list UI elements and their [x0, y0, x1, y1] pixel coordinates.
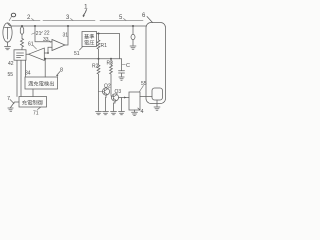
- ground under driver: [132, 112, 138, 115]
- wire box34 to box71: [32, 89, 34, 97]
- resistor R2: [97, 59, 100, 111]
- svg-text:55: 55: [141, 81, 147, 87]
- reference voltage box 51: [82, 32, 97, 47]
- wire op-amp 33 lower input: [44, 47, 52, 53]
- wire oval top to bus: [8, 23, 12, 26]
- bracket line section 2: [12, 20, 40, 22]
- driver block 4: [129, 92, 140, 110]
- wire block61 right down to box34: [25, 60, 27, 77]
- svg-text:Q2: Q2: [104, 84, 111, 90]
- transistor Q3: [111, 94, 118, 101]
- label 7 leader: [10, 100, 14, 104]
- node: junction at transistor 21: [21, 25, 23, 27]
- svg-text:8: 8: [60, 68, 63, 74]
- svg-text:22: 22: [44, 31, 50, 37]
- svg-text:R2: R2: [92, 64, 99, 70]
- wire oval bottom: [7, 42, 9, 46]
- svg-text:4: 4: [141, 109, 144, 115]
- svg-text:1: 1: [84, 4, 88, 11]
- control box 71: [19, 97, 47, 108]
- svg-text:31: 31: [63, 33, 69, 39]
- label 21 leader: [32, 33, 36, 34]
- svg-text:Q3: Q3: [115, 89, 122, 95]
- wire op-amp 33 output up to bus: [65, 26, 68, 45]
- wire from node down to op-amp 33 input: [35, 26, 52, 42]
- wire Q3 collector to driver: [119, 98, 129, 100]
- node R3 top: [110, 58, 112, 60]
- label 61 leader: [33, 46, 37, 50]
- svg-text:51: 51: [74, 51, 80, 57]
- transistor Q2: [102, 88, 109, 95]
- label 5 tick: [124, 19, 127, 21]
- resistor 22: [21, 39, 24, 50]
- svg-text:基準: 基準: [84, 33, 94, 41]
- wire Q3 emitter to ground: [114, 101, 116, 111]
- label 6 leader: [147, 17, 153, 23]
- wire electrode to ground: [156, 100, 158, 107]
- wire: node line from comparator to right: [44, 58, 121, 60]
- svg-text:61: 61: [28, 42, 34, 48]
- svg-text:満充電検出: 満充電検出: [28, 80, 55, 88]
- label 4 leader: [138, 108, 140, 110]
- node: junction feeding comparator input: [34, 25, 36, 27]
- label 2 tick: [32, 19, 35, 21]
- solar cell PV1 ellipse: [3, 23, 12, 42]
- op-amp 33: [52, 40, 65, 51]
- wire box71 left to ground: [11, 102, 20, 108]
- ground bottom-left: [8, 108, 13, 111]
- label C leader: [122, 64, 125, 66]
- svg-text:R1: R1: [101, 43, 108, 49]
- svg-text:電圧: 電圧: [84, 40, 94, 47]
- node R1/R2: [98, 58, 100, 60]
- block 61 inner marks: [17, 53, 24, 58]
- solar cell internal plates: [5, 27, 11, 29]
- label 3 tick: [71, 19, 74, 21]
- label 55 leader (driver): [140, 86, 144, 92]
- svg-text:21: 21: [36, 31, 42, 37]
- wire 55 from block61 down: [20, 60, 22, 96]
- ground under Q2: [103, 112, 109, 115]
- ground under C: [119, 77, 124, 80]
- wire ref box output: [97, 34, 120, 59]
- bracket line section 5: [100, 20, 143, 22]
- zener 62 from bus: [132, 25, 134, 27]
- resistor R1: [97, 34, 100, 59]
- op-amp 32 (points left): [29, 48, 45, 61]
- ground under tube: [154, 107, 160, 110]
- bracket line section 3: [43, 20, 95, 22]
- node: output junction on bus: [67, 25, 69, 27]
- ground under solar cell: [5, 47, 11, 50]
- node at x48: [47, 52, 49, 54]
- capacitor C: [119, 59, 125, 77]
- fluorescent tube 6: [146, 23, 166, 104]
- node R1 top: [98, 33, 100, 35]
- ground fourth: [119, 112, 125, 115]
- label 33 leader: [49, 41, 51, 43]
- wire 42 from block61 down: [16, 60, 18, 96]
- svg-text:55: 55: [8, 72, 14, 78]
- wire op-amp 32 output to block 61: [26, 53, 29, 55]
- resistor R3: [110, 59, 113, 94]
- svg-text:34: 34: [25, 71, 31, 77]
- wire under driver: [134, 110, 136, 112]
- wire fourth ground: [121, 99, 123, 111]
- node dot left: [44, 58, 46, 60]
- wire: main top supply: [11, 25, 146, 27]
- svg-text:充電制御: 充電制御: [22, 98, 43, 106]
- transistor 21 fork symbol: [20, 26, 23, 39]
- ground under zener: [130, 46, 136, 49]
- ground under Q3: [111, 112, 117, 115]
- lamp inner electrode box: [152, 88, 163, 100]
- svg-text:33: 33: [43, 37, 49, 43]
- svg-text:R3: R3: [107, 61, 114, 67]
- wire driver to lamp: [140, 96, 152, 98]
- label 71 leader: [38, 107, 41, 109]
- label balloon at solar cell: [11, 13, 15, 17]
- svg-text:42: 42: [8, 61, 14, 67]
- label 22 leader: [41, 32, 43, 34]
- wire Q2 emitter to ground: [105, 95, 108, 111]
- svg-text:71: 71: [33, 111, 39, 117]
- ground under R2: [96, 112, 102, 115]
- label 51 leader: [80, 47, 83, 50]
- full charge detection box 34: [25, 77, 58, 89]
- wire down to detector box: [44, 59, 46, 77]
- label 8 arrow: [57, 72, 61, 76]
- block 61 rectangle: [14, 50, 26, 60]
- svg-text:C: C: [126, 63, 130, 69]
- svg-text:7: 7: [7, 96, 10, 102]
- label 1 arrow: [83, 10, 87, 16]
